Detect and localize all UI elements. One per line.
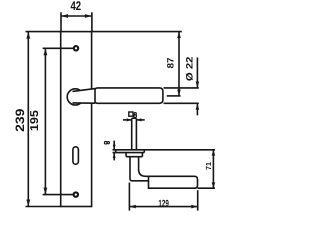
dim 129 line xyxy=(129,206,197,208)
spindle width arrow left (points right) xyxy=(127,118,132,121)
lever grip bar (front) xyxy=(95,88,163,103)
arrow left xyxy=(61,14,68,18)
dim 8 arrow lower (points up) xyxy=(113,153,116,158)
dim 129 arrow left xyxy=(129,205,135,209)
svg-text:71: 71 xyxy=(204,162,213,170)
spindle width arrow right (points left) xyxy=(137,118,142,121)
arrow top xyxy=(26,32,30,39)
ext line bar bottom xyxy=(164,102,199,104)
dim stem lower xyxy=(196,103,198,115)
plate strip top line (incl. ext for dims 8 and 71) xyxy=(113,149,216,151)
collar bottom xyxy=(126,156,142,158)
svg-text:195: 195 xyxy=(29,109,41,131)
dim line 195 xyxy=(44,48,46,194)
label 8 of square spindle xyxy=(134,113,137,118)
spindle left line xyxy=(131,118,133,150)
arrow upper (points down) xyxy=(196,82,200,88)
dim 129 ext line right xyxy=(197,190,199,210)
arrow bottom xyxy=(26,200,30,207)
ext line left xyxy=(60,12,62,31)
keyhole slot xyxy=(73,147,79,165)
dim 129 arrow right xyxy=(191,205,197,209)
svg-text:42: 42 xyxy=(71,0,82,13)
ext line right xyxy=(91,12,93,31)
square symbol of □8 label xyxy=(129,112,133,116)
neck bottom line xyxy=(73,102,96,104)
dim line 42 xyxy=(61,15,92,17)
spindle width dim line right xyxy=(137,119,145,121)
top screw hole xyxy=(74,46,78,50)
dim stem upper xyxy=(196,58,198,88)
grip bottom ext line (to dim 71) xyxy=(198,187,216,189)
svg-text:Ø 22: Ø 22 xyxy=(184,57,194,82)
ext line bottom hole xyxy=(43,194,74,196)
backplate outline xyxy=(61,32,92,207)
dim 8 plate thickness: upper stem xyxy=(113,141,115,150)
dim 71 arrow bottom xyxy=(212,182,216,188)
svg-text:239: 239 xyxy=(13,108,27,132)
neck top line xyxy=(73,89,96,92)
dim line 87 xyxy=(178,32,180,96)
collar left edge xyxy=(125,153,127,157)
plate strip right end xyxy=(143,150,145,153)
label 8 plate thickness (rotated) xyxy=(104,141,109,144)
bottom screw hole xyxy=(74,192,78,196)
spindle width dim line left xyxy=(123,119,131,121)
dim 8 lower stem xyxy=(113,153,115,160)
arrow lower (points up) xyxy=(196,103,200,109)
ext line bottom xyxy=(26,206,61,208)
plate strip left end xyxy=(115,150,117,153)
svg-text:87: 87 xyxy=(166,58,176,69)
spindle right line xyxy=(135,118,137,150)
grip (plan) xyxy=(149,176,198,188)
ext line top hole xyxy=(43,47,74,49)
svg-text:129: 129 xyxy=(158,198,169,209)
collar right edge xyxy=(141,153,143,157)
arrow top xyxy=(44,48,48,55)
dim 71 line xyxy=(212,150,214,188)
dim 71 arrow top xyxy=(212,150,216,156)
plate strip bottom line xyxy=(113,152,145,154)
arrow top xyxy=(177,32,181,38)
arrow bottom xyxy=(44,188,48,195)
ext line top xyxy=(26,31,61,33)
neck right line + inner bend xyxy=(139,157,149,177)
neck left line + outer corner xyxy=(130,157,149,181)
arrow right xyxy=(85,14,92,18)
ext line plate top extended right xyxy=(92,31,182,33)
spindle top cap xyxy=(132,117,137,119)
arrow bottom xyxy=(177,90,181,96)
dim 8 arrow upper (points down) xyxy=(113,145,116,150)
handle neck (white fill covers plate edge + circle) xyxy=(73,89,96,104)
ext line bar top xyxy=(164,87,199,89)
ext line handle axis xyxy=(167,95,181,97)
dim 129 ext line left xyxy=(128,183,130,211)
handle hub circle xyxy=(67,89,83,105)
dim line 239 xyxy=(27,32,29,207)
